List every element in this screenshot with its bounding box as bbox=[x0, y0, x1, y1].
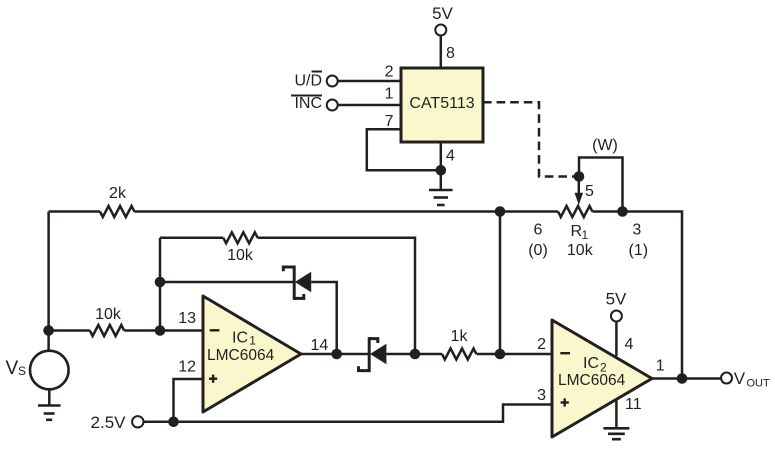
svg-text:10k: 10k bbox=[95, 306, 122, 323]
svg-text:10k: 10k bbox=[567, 242, 594, 259]
svg-text:5V: 5V bbox=[606, 290, 627, 309]
wire: VS to ground bbox=[48, 389, 51, 405]
junction dot IC1 output bbox=[331, 349, 342, 360]
wire: IC1 pin 12 to 2.5V rail bbox=[174, 379, 204, 422]
svg-text:4: 4 bbox=[625, 336, 634, 353]
svg-text:(W): (W) bbox=[592, 137, 618, 154]
wire: feedback left segment bbox=[160, 237, 223, 240]
svg-text:8: 8 bbox=[446, 45, 455, 62]
junction dot 1k/top-rail node bbox=[495, 349, 506, 360]
wire: 5V terminal to CAT5113 pin 8 bbox=[440, 36, 443, 69]
node 5V terminal (IC2 pin 4) bbox=[606, 290, 627, 322]
wire: 2k to pot left terminal bbox=[134, 210, 558, 213]
svg-text:V: V bbox=[734, 369, 746, 388]
svg-text:3: 3 bbox=[537, 387, 546, 404]
op-amp IC2 LMC6064 bbox=[552, 320, 652, 437]
node 2.5V terminal bbox=[91, 413, 144, 432]
svg-text:12: 12 bbox=[178, 359, 196, 376]
svg-text:U/D: U/D bbox=[294, 73, 322, 90]
svg-text:2k: 2k bbox=[109, 185, 127, 202]
svg-text:(1): (1) bbox=[629, 242, 649, 259]
potentiometer R1 10k zigzag bbox=[558, 206, 592, 217]
ground (VS) bbox=[38, 406, 61, 420]
op-amp IC1 LMC6064 bbox=[203, 296, 301, 412]
ground (IC2) bbox=[603, 428, 629, 439]
wire: 5V to IC2 pin 4 bbox=[615, 322, 618, 357]
wire: top rail corner to output node bbox=[623, 212, 683, 379]
svg-text:5: 5 bbox=[585, 183, 594, 200]
svg-text:2: 2 bbox=[537, 336, 546, 353]
resistor 10k (input) bbox=[90, 325, 124, 336]
svg-text:2: 2 bbox=[385, 64, 394, 81]
resistor 10k (feedback) bbox=[223, 232, 257, 243]
node INC input terminal bbox=[291, 95, 338, 112]
wire: IC2 output to VOUT bbox=[652, 377, 721, 380]
wiper arrow into R1 bbox=[575, 177, 584, 206]
svg-text:1: 1 bbox=[249, 334, 256, 348]
resistor 2k bbox=[100, 206, 134, 217]
junction dot 2.5V node bbox=[168, 417, 179, 428]
svg-text:OUT: OUT bbox=[747, 378, 771, 390]
wire: diode D1 branch left bbox=[160, 281, 294, 284]
diode D1 (schottky) bbox=[283, 266, 311, 300]
dashed control link CAT5113 to wiper bbox=[483, 102, 574, 176]
wire: 10k to IC1 pin 13 bbox=[124, 329, 203, 332]
wire: CAT5113 pin 4 down to ground node bbox=[440, 142, 443, 189]
wire: CAT5113 pin 7 loop to ground node bbox=[367, 129, 441, 170]
source VS bbox=[6, 351, 69, 390]
5V supply terminal (CAT5113 pin 8) bbox=[432, 4, 453, 36]
wire: 1k to IC2 pin 2 bbox=[476, 353, 552, 356]
svg-text:LMC6064: LMC6064 bbox=[558, 372, 626, 389]
wire: D1 to output node bbox=[311, 282, 337, 354]
junction dot inverting input node bbox=[155, 325, 166, 336]
wire: wiper bracket to terminal 3 bbox=[579, 158, 623, 212]
junction dot wiper bbox=[574, 171, 585, 182]
wire: main top rail y=211.5 bbox=[49, 210, 100, 213]
svg-text:1: 1 bbox=[582, 228, 589, 242]
wire: VS node to 10k input resistor bbox=[49, 329, 90, 332]
wire: IC2 pin 11 to ground bbox=[615, 400, 618, 428]
resistor 1k bbox=[442, 349, 476, 360]
svg-text:1k: 1k bbox=[451, 328, 469, 345]
svg-text:10k: 10k bbox=[227, 247, 254, 264]
wire: pot right terminal bbox=[592, 210, 622, 213]
svg-text:6: 6 bbox=[534, 221, 543, 238]
svg-text:IC: IC bbox=[232, 330, 248, 347]
wire: D2 to 1k bbox=[386, 353, 442, 356]
wire: U/D terminal to pin 2 bbox=[338, 80, 401, 83]
wire: vertical from top rail to VS node bbox=[47, 212, 50, 352]
svg-text:1: 1 bbox=[656, 358, 665, 375]
svg-text:13: 13 bbox=[178, 310, 196, 327]
svg-text:V: V bbox=[6, 358, 19, 379]
junction dot node A (diode branch) bbox=[155, 277, 166, 288]
svg-text:(0): (0) bbox=[528, 242, 548, 259]
junction dot at x=500 on top rail bbox=[495, 206, 506, 217]
diode D2 (schottky) bbox=[359, 337, 387, 372]
svg-text:2.5V: 2.5V bbox=[91, 413, 127, 432]
svg-text:R: R bbox=[571, 223, 583, 240]
wire: vertical x=500 down to 1k node bbox=[499, 212, 502, 355]
svg-text:3: 3 bbox=[632, 221, 641, 238]
junction dot output node bbox=[677, 373, 688, 384]
svg-text:INC: INC bbox=[294, 95, 322, 112]
digital potentiometer U1 CAT5113 body bbox=[401, 68, 483, 142]
wire: vertical x=160 from feedback to pin13 node bbox=[159, 238, 162, 331]
wire: feedback right segment down to D2 node bbox=[258, 238, 415, 354]
node VS top junction bbox=[43, 325, 54, 336]
node U/D input terminal bbox=[294, 72, 337, 90]
junction dot pot terminal 3 bbox=[617, 206, 628, 217]
wire: IC1 output to D2 bbox=[301, 353, 369, 356]
svg-text:7: 7 bbox=[385, 113, 394, 130]
svg-text:IC: IC bbox=[583, 355, 599, 372]
wire: INC terminal to pin 1 bbox=[338, 104, 401, 107]
junction dot: pin4/pin7/ground bbox=[436, 165, 447, 176]
svg-text:4: 4 bbox=[446, 148, 455, 165]
svg-text:S: S bbox=[18, 364, 26, 378]
ground (CAT5113) bbox=[429, 190, 453, 205]
svg-text:14: 14 bbox=[311, 337, 329, 354]
svg-text:1: 1 bbox=[385, 86, 394, 103]
svg-text:LMC6064: LMC6064 bbox=[207, 347, 275, 364]
wire: 2.5V rail to IC2 pin 3 bbox=[143, 405, 552, 422]
junction dot D2/feedback node bbox=[410, 349, 421, 360]
svg-text:5V: 5V bbox=[432, 4, 453, 23]
svg-text:CAT5113: CAT5113 bbox=[409, 95, 474, 112]
svg-text:11: 11 bbox=[625, 396, 642, 413]
node VOUT terminal bbox=[721, 369, 770, 390]
